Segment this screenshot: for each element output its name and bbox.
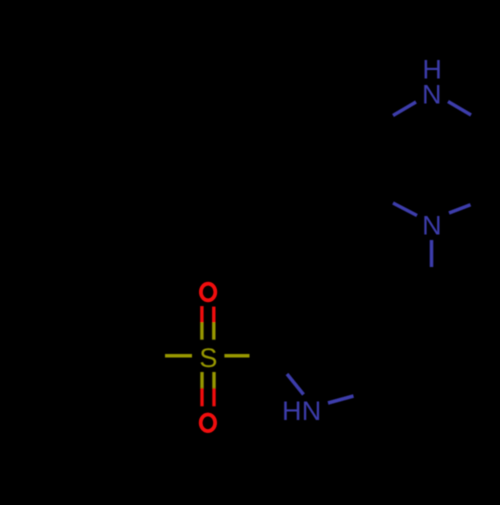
bond S-CH3 (sulfur half) [165, 354, 192, 358]
double bond S=O bottom, line 2 sulfur half [212, 372, 215, 388]
double bond S=O top, line 2 oxygen half [212, 307, 215, 323]
bond S-C2pyrrole (sulfur half) [224, 354, 249, 358]
double bond S=O top, line 1 oxygen half [200, 306, 203, 322]
svg-text:S: S [199, 343, 217, 373]
atom O top label [201, 284, 215, 301]
bond N1-C6 piperazine (blue half) [448, 102, 471, 116]
bond N4-C3 piperazine (blue half) [393, 203, 417, 216]
bond N4-C5 piperazine (blue half) [449, 205, 471, 213]
svg-text:N: N [302, 396, 322, 426]
svg-text:H: H [282, 396, 302, 426]
double bond S=O bottom, line 1 sulfur half [200, 372, 203, 388]
bond N1-C2 piperazine (blue half) [393, 102, 416, 116]
double bond S=O bottom, line 1 oxygen half [200, 388, 203, 406]
atom O bottom label [201, 415, 215, 432]
svg-text:N: N [422, 80, 442, 110]
bond N4-CH2 linker (blue half) [430, 240, 434, 267]
svg-text:N: N [422, 211, 442, 241]
double bond S=O top, line 2 sulfur half [212, 323, 215, 340]
double bond S=O top, line 1 sulfur half [200, 323, 203, 340]
double bond S=O bottom, line 2 oxygen half [212, 388, 215, 406]
bond Npyrrole-C2 (blue half) [287, 374, 304, 395]
bond Npyrrole-C5 (blue half) [328, 396, 354, 403]
